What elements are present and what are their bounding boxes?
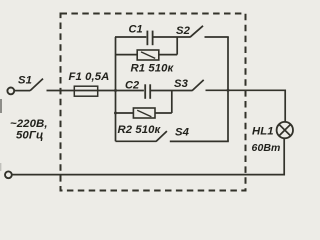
junction node A [114,89,117,92]
wire right vertical of C1R1 block [176,37,178,55]
wire S3 output to lamp corner [206,90,286,122]
switch S3 [192,80,204,91]
svg-text:F1 0,5A: F1 0,5A [69,71,110,83]
switch S1 [30,79,43,91]
svg-text:HL1: HL1 [252,125,274,137]
wire lamp to bottom return [12,138,284,174]
capacitor C2 [144,84,146,99]
capacitor C1 [146,31,148,46]
svg-text:50Гц: 50Гц [16,130,43,142]
svg-text:S1: S1 [18,75,32,87]
wire input to S1 [14,90,30,92]
fuse F1 [74,86,97,96]
dashed enclosure [61,14,246,191]
terminal X1 (top input) [7,88,14,95]
svg-text:C2: C2 [125,79,139,91]
resistor R1 body [137,50,159,60]
svg-text:C1: C1 [129,23,143,35]
junction node A / R2 rail [114,112,117,115]
wire S4 output to node B [170,140,229,142]
svg-text:60Вт: 60Вт [252,142,281,154]
wire right vertical of C2R2 block [171,91,173,114]
scan edge artifact left [0,99,2,113]
svg-text:S3: S3 [174,78,189,90]
svg-text:R2 510к: R2 510к [118,124,162,136]
node A vertical wire [115,37,117,141]
svg-text:S2: S2 [176,25,191,37]
lamp HL1 [277,122,293,138]
wire S2 output to node B [205,36,229,38]
switch S4 [156,131,167,141]
wire S1 to node A (main line, через fuse) [47,90,144,92]
svg-text:S4: S4 [175,127,190,139]
wire top branch right segment [153,36,190,38]
terminal X2 (bottom) [5,171,12,178]
wire C2 to S3 pivot [151,90,193,92]
wire S4 left segment [116,140,157,142]
resistor R2 rails [116,112,134,114]
node B vertical wire [227,37,229,141]
resistor R1 rails [116,54,138,56]
wire top branch left segment [115,36,146,38]
resistor R2 body [133,108,155,118]
junction node B [227,89,230,92]
svg-text:R1 510к: R1 510к [131,63,175,75]
switch S2 [190,26,203,37]
svg-text:~220В,: ~220В, [10,118,48,130]
